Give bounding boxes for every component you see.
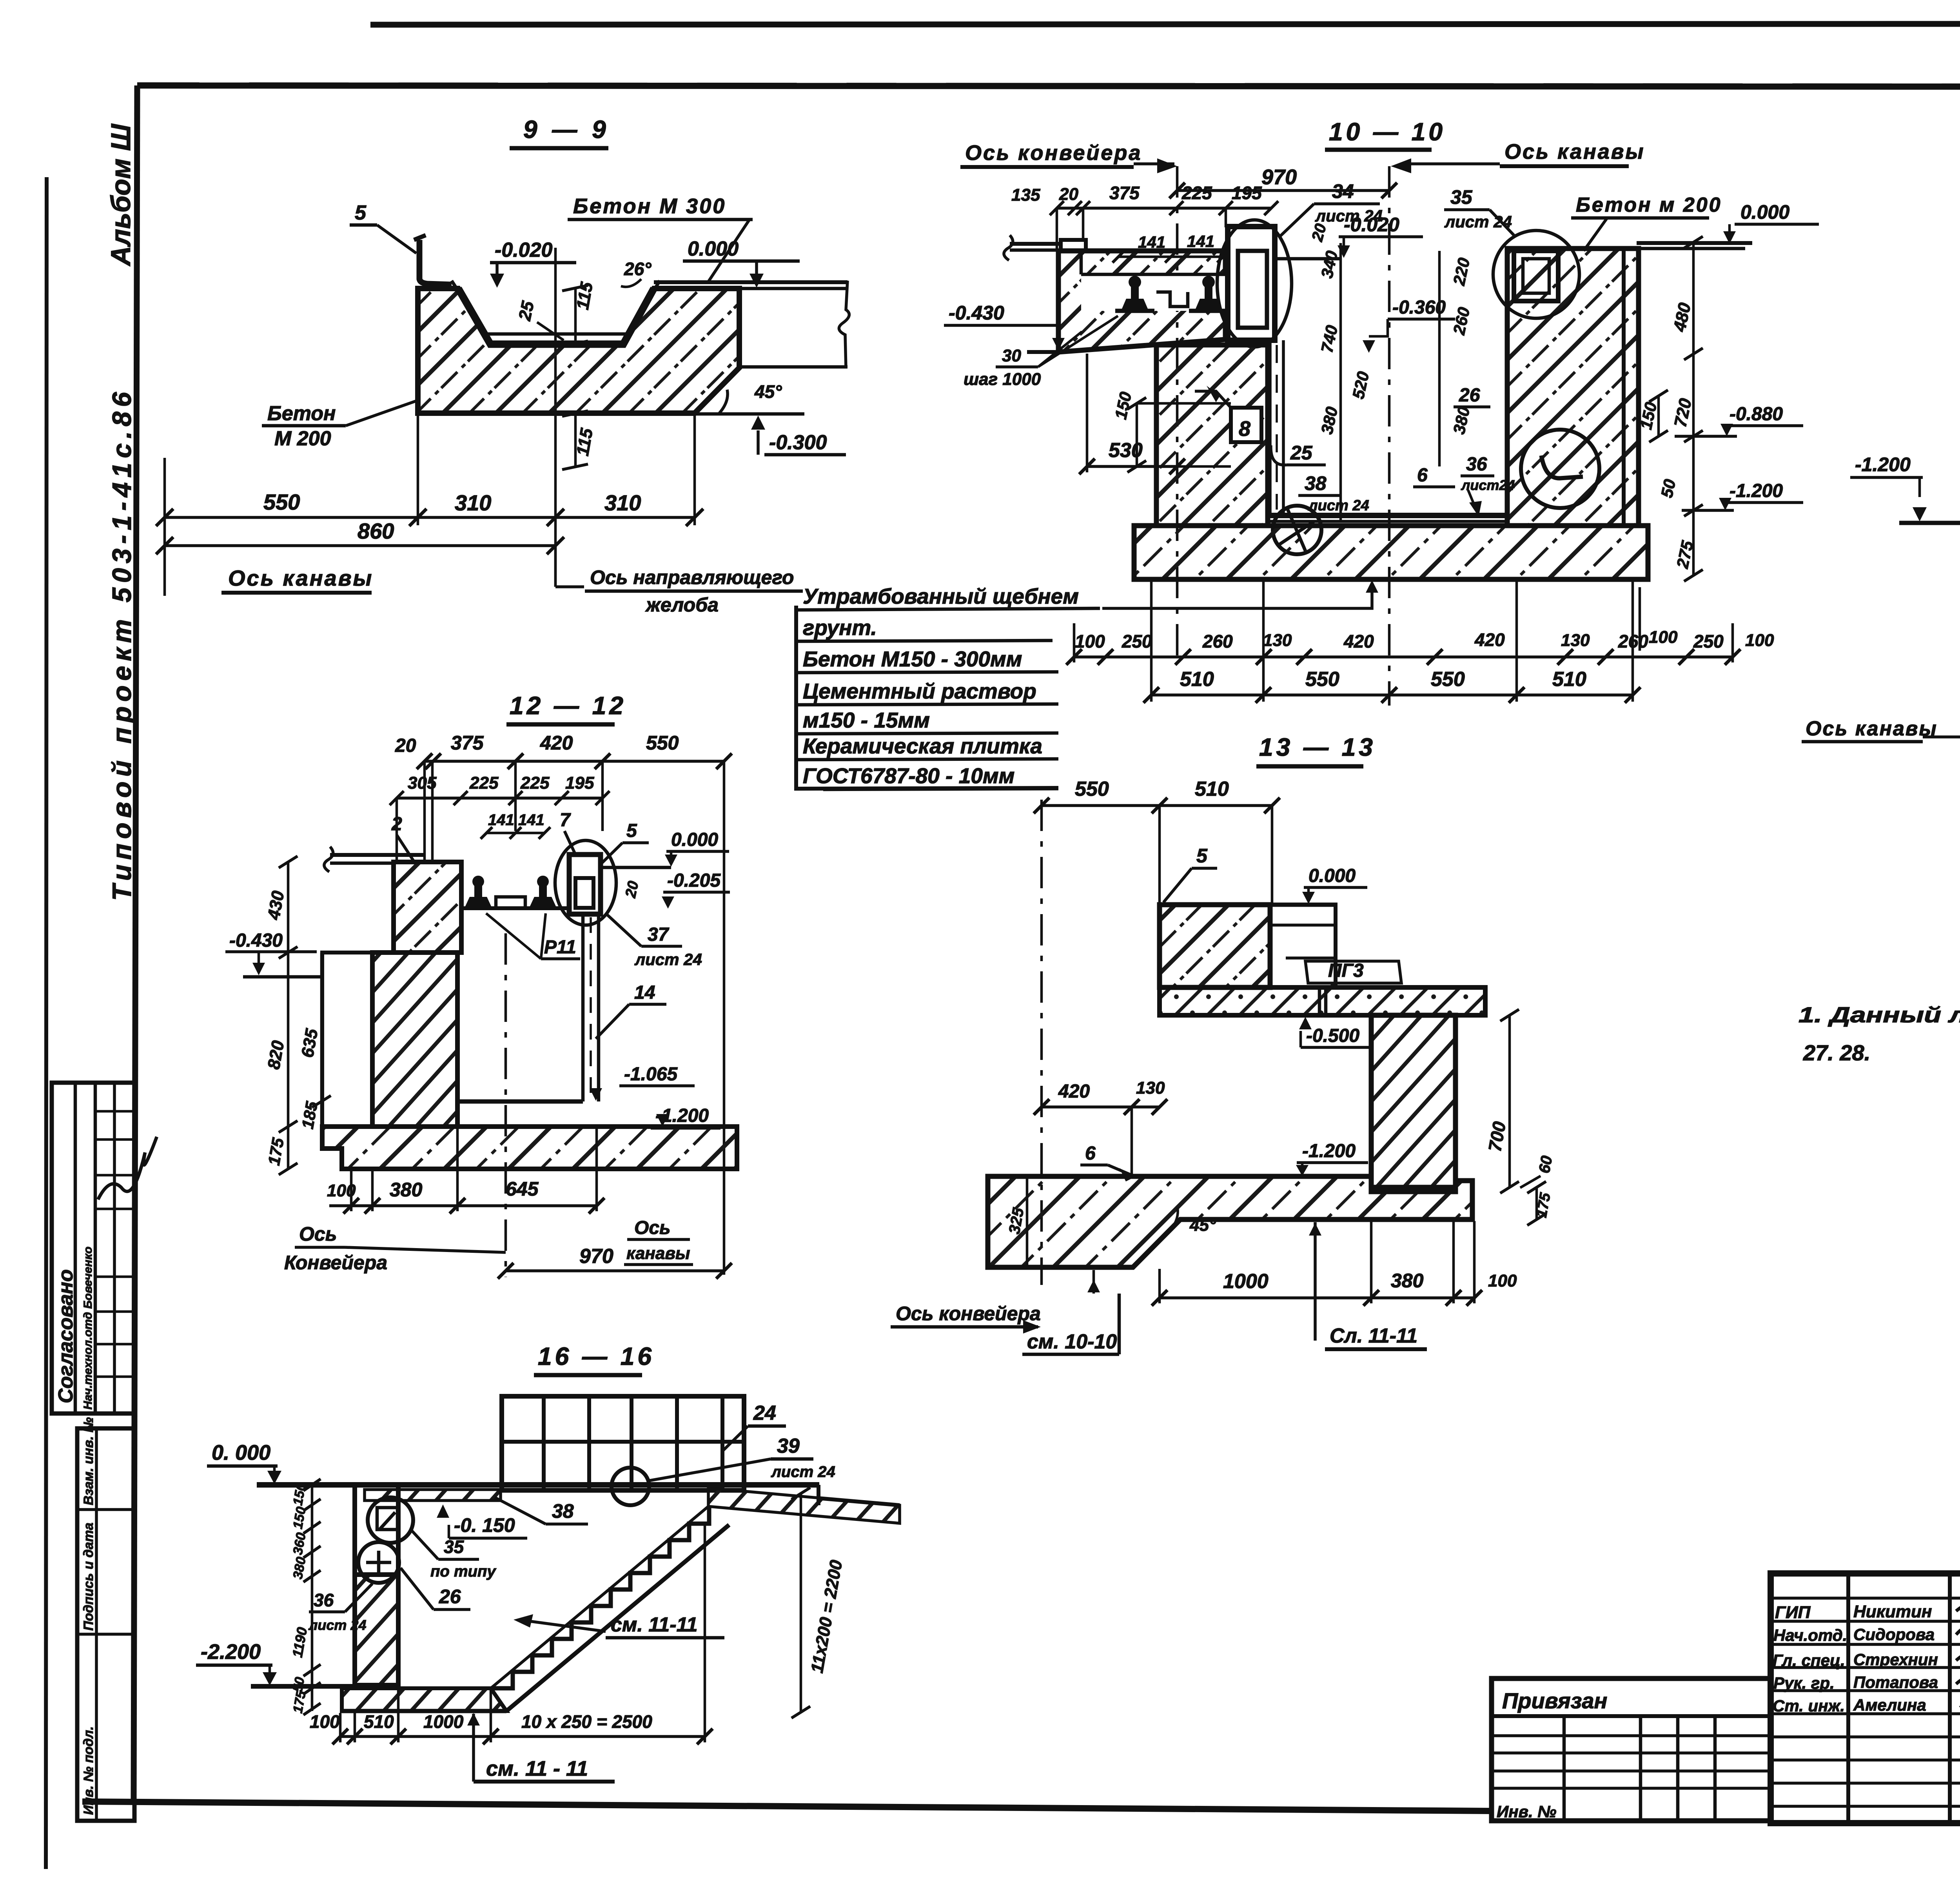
- dim 141 141: [1118, 256, 1223, 258]
- svg-text:13 — 13: 13 — 13: [1259, 733, 1376, 761]
- left outline box: [322, 953, 372, 1127]
- svg-text:Ось: Ось: [299, 1223, 337, 1245]
- svg-text:1000: 1000: [1223, 1270, 1269, 1293]
- svg-text:0.000: 0.000: [1308, 866, 1356, 886]
- svg-text:Потапова: Потапова: [1853, 1673, 1938, 1691]
- svg-text:-0.880: -0.880: [1730, 404, 1783, 425]
- svg-text:550: 550: [263, 490, 300, 514]
- svg-text:550: 550: [646, 732, 679, 754]
- svg-text:лист 24: лист 24: [1308, 497, 1369, 514]
- svg-text:645: 645: [506, 1178, 539, 1200]
- svg-text:Ось канавы: Ось канавы: [228, 566, 373, 590]
- svg-text:-0. 150: -0. 150: [454, 1514, 515, 1536]
- floor line -1.200: [1899, 521, 1960, 525]
- svg-text:1000: 1000: [423, 1711, 464, 1732]
- svg-text:ГИП: ГИП: [1775, 1603, 1811, 1622]
- right vertical dim 700: [1508, 1015, 1511, 1187]
- svg-text:10 x 250 = 2500: 10 x 250 = 2500: [521, 1711, 652, 1732]
- left vertical dim 430: [287, 862, 290, 953]
- svg-text:-0.020: -0.020: [495, 239, 553, 261]
- svg-text:20: 20: [1308, 222, 1330, 243]
- svg-text:27. 28.: 27. 28.: [1803, 1040, 1870, 1065]
- drawing frame border bottom: [82, 1802, 1492, 1811]
- svg-text:36: 36: [314, 1590, 334, 1610]
- bottom dim row 2: [1151, 693, 1633, 697]
- svg-text:Бетон м 200: Бетон м 200: [1576, 194, 1722, 216]
- floor lines extending right: [654, 280, 848, 284]
- right channel detail circle: [1493, 230, 1579, 318]
- svg-text:14: 14: [634, 982, 655, 1003]
- svg-text:ПГ3: ПГ3: [1328, 960, 1364, 981]
- svg-text:-1.200: -1.200: [1302, 1141, 1356, 1161]
- svg-text:5: 5: [355, 201, 367, 224]
- svg-text:225: 225: [469, 773, 499, 793]
- slab joint: [1318, 987, 1321, 1015]
- upper-left hatched block: [1058, 251, 1225, 352]
- svg-text:720: 720: [1671, 397, 1695, 429]
- svg-text:-0.500: -0.500: [1306, 1025, 1359, 1046]
- svg-text:по типу: по типу: [430, 1563, 496, 1580]
- svg-text:Ось: Ось: [634, 1218, 671, 1238]
- svg-text:-0.430: -0.430: [229, 930, 283, 951]
- pit floor lines: [1268, 513, 1507, 518]
- approval table verticals: [74, 1083, 77, 1414]
- svg-text:Ось канавы: Ось канавы: [1504, 140, 1645, 163]
- thin wall below channel: [581, 914, 585, 1101]
- svg-text:Р11: Р11: [544, 937, 576, 958]
- svg-text:135: 135: [1011, 185, 1040, 205]
- svg-text:250: 250: [1693, 631, 1724, 651]
- svg-text:37: 37: [648, 924, 670, 945]
- svg-text:220: 220: [1450, 256, 1474, 287]
- svg-text:лист 24: лист 24: [771, 1463, 835, 1481]
- svg-text:см. 10-10: см. 10-10: [1027, 1330, 1117, 1353]
- svg-text:-1.065: -1.065: [624, 1064, 678, 1085]
- concrete body hatched polygon: [418, 289, 739, 413]
- svg-text:5: 5: [626, 820, 637, 841]
- landing top line: [817, 1485, 820, 1505]
- big right vertical dim: [1692, 242, 1695, 575]
- signature columns verticals: [1846, 1573, 1850, 1823]
- svg-text:480: 480: [1670, 301, 1695, 334]
- svg-text:Рук. гр.: Рук. гр.: [1773, 1674, 1835, 1692]
- central vertical dim line: [1339, 243, 1342, 522]
- svg-text:-0.430: -0.430: [949, 302, 1004, 324]
- svg-text:Привязан: Привязан: [1502, 1688, 1607, 1713]
- strip columns: [1563, 1716, 1566, 1821]
- svg-text:лист 24: лист 24: [308, 1617, 366, 1633]
- svg-text:45°: 45°: [754, 381, 782, 402]
- svg-text:Ось канавы: Ось канавы: [1806, 717, 1938, 740]
- svg-text:25: 25: [1290, 442, 1313, 464]
- svg-text:Сл. 11-11: Сл. 11-11: [1330, 1325, 1417, 1347]
- right hatched column dense: [1371, 1015, 1455, 1187]
- svg-text:185: 185: [298, 1100, 321, 1130]
- top dim row 135/20/375/225/195: [1057, 207, 1271, 210]
- svg-text:Ось направляющего: Ось направляющего: [590, 566, 794, 588]
- left floor broken edge lines: [1010, 242, 1061, 246]
- svg-text:510: 510: [364, 1711, 394, 1732]
- svg-text:26°: 26°: [624, 259, 652, 279]
- svg-text:39: 39: [777, 1435, 800, 1457]
- svg-text:130: 130: [1263, 631, 1292, 650]
- svg-text:510: 510: [1180, 668, 1214, 691]
- bottom dim row: [340, 1735, 705, 1738]
- svg-text:Сидорова: Сидорова: [1853, 1625, 1935, 1644]
- dim 141,141: [486, 832, 544, 835]
- Привязан strip box: [1492, 1678, 1771, 1821]
- svg-text:510: 510: [1552, 668, 1586, 691]
- svg-text:420: 420: [1058, 1081, 1090, 1102]
- svg-text:Ось конвейера: Ось конвейера: [965, 141, 1142, 165]
- axis направляющего желоба line: [554, 248, 557, 587]
- right break squiggle: [839, 281, 849, 368]
- rail seat notch: [1081, 274, 1225, 311]
- svg-text:30: 30: [1002, 346, 1021, 365]
- svg-text:100: 100: [1075, 631, 1105, 651]
- svg-text:Стрехнин: Стрехнин: [1853, 1650, 1938, 1669]
- svg-text:310: 310: [455, 490, 491, 515]
- channel C with detail ellipse: [569, 855, 601, 914]
- title block outer box: [1771, 1573, 1960, 1823]
- left pit wall hatched: [1156, 345, 1268, 526]
- svg-text:50: 50: [1657, 477, 1679, 499]
- left ext line with ticks: [311, 1485, 314, 1711]
- svg-text:6: 6: [1085, 1143, 1096, 1164]
- svg-text:100: 100: [1745, 631, 1774, 650]
- bottom dim row 100/380/645: [329, 1204, 597, 1207]
- svg-text:Цементный раствор: Цементный раствор: [803, 679, 1036, 703]
- svg-text:6: 6: [1417, 465, 1428, 486]
- ext verticals top dims: [396, 798, 398, 862]
- svg-text:35: 35: [444, 1537, 465, 1557]
- svg-text:-2.200: -2.200: [201, 1640, 261, 1664]
- rail 2: [530, 876, 556, 907]
- lower-left hatched column: [372, 953, 457, 1127]
- svg-text:шаг 1000: шаг 1000: [964, 370, 1041, 389]
- bottom dim row 1000/380/100: [1160, 1296, 1474, 1299]
- top floor line: [257, 1482, 819, 1488]
- svg-text:550: 550: [1075, 778, 1109, 800]
- svg-text:см. 11 - 11: см. 11 - 11: [486, 1757, 588, 1780]
- left thin floor band hatched: [365, 1490, 501, 1501]
- wall lower hatched part: [355, 1575, 398, 1685]
- svg-text:635: 635: [298, 1027, 322, 1059]
- svg-text:Амелина: Амелина: [1853, 1696, 1926, 1714]
- scanned page left edge artifact: [46, 177, 47, 1869]
- svg-text:лист 24: лист 24: [634, 950, 702, 969]
- left block step notch: [1061, 240, 1086, 251]
- svg-text:195: 195: [1232, 183, 1262, 203]
- inner vertical dim 635/185: [320, 953, 323, 1127]
- boxed label 8: [1231, 408, 1261, 442]
- svg-text:Инв. № подл.: Инв. № подл.: [81, 1726, 96, 1815]
- label Ось направляющего желоба: [554, 546, 557, 587]
- svg-text:195: 195: [565, 773, 594, 793]
- svg-text:Взам. инв. №: Взам. инв. №: [81, 1417, 96, 1505]
- left wall column outline: [355, 1485, 398, 1685]
- svg-text:1190: 1190: [289, 1626, 310, 1658]
- svg-text:375: 375: [1109, 183, 1140, 203]
- svg-text:141: 141: [518, 811, 544, 829]
- label см. 11-11 bottom with leader: [472, 1714, 475, 1782]
- svg-text:970: 970: [1261, 165, 1297, 189]
- svg-text:0. 000: 0. 000: [212, 1441, 270, 1464]
- svg-text:М 200: М 200: [274, 427, 331, 450]
- svg-text:24: 24: [753, 1402, 776, 1424]
- svg-text:Согласовано: Согласовано: [54, 1269, 77, 1403]
- left vertical dim 820: [287, 953, 290, 1127]
- ext verticals bottom: [350, 1170, 353, 1211]
- svg-text:16 — 16: 16 — 16: [538, 1342, 655, 1370]
- svg-text:-0.205: -0.205: [667, 870, 721, 891]
- right landing band hatched: [708, 1488, 900, 1523]
- foundation slab hatched: [1134, 526, 1648, 579]
- left upstand flashing: [419, 240, 452, 285]
- notch between rails: [496, 897, 525, 908]
- svg-text:420: 420: [1474, 630, 1505, 650]
- svg-text:Конвейера: Конвейера: [284, 1252, 387, 1274]
- svg-text:м150 - 15мм: м150 - 15мм: [803, 708, 930, 732]
- svg-text:2: 2: [391, 814, 402, 835]
- second dim row 305/225/225/195: [397, 797, 603, 800]
- svg-text:8: 8: [1239, 417, 1250, 441]
- svg-text:Гл. спец.: Гл. спец.: [1773, 1651, 1845, 1669]
- svg-text:20: 20: [622, 880, 642, 900]
- svg-text:-1.200: -1.200: [1855, 454, 1911, 475]
- svg-text:550: 550: [1305, 668, 1339, 691]
- svg-text:45°: 45°: [1189, 1216, 1216, 1235]
- svg-text:35: 35: [1450, 186, 1473, 208]
- svg-text:1. Данный лист см. совмес: 1. Данный лист см. совместно с листами 1…: [1798, 1002, 1960, 1027]
- svg-text:0.000: 0.000: [671, 829, 718, 850]
- svg-text:12 — 12: 12 — 12: [510, 691, 626, 720]
- svg-text:380: 380: [390, 1179, 423, 1201]
- svg-text:520: 520: [1349, 370, 1373, 401]
- svg-text:Инв. №: Инв. №: [1497, 1802, 1556, 1821]
- drawing frame border top: [137, 85, 1960, 87]
- svg-text:Утрамбованный щебнем: Утрамбованный щебнем: [803, 584, 1079, 608]
- svg-text:36: 36: [1466, 454, 1487, 475]
- upper hatched block: [1160, 905, 1270, 987]
- stair slab underside: [506, 1525, 729, 1711]
- svg-text:310: 310: [604, 490, 641, 515]
- svg-text:141: 141: [1187, 232, 1214, 250]
- detail circle 1: [368, 1497, 413, 1543]
- lower margin table rows: [77, 1508, 134, 1511]
- svg-text:510: 510: [1195, 778, 1229, 800]
- svg-text:Никитин: Никитин: [1853, 1602, 1932, 1621]
- right inner vertical dim: [1438, 251, 1441, 466]
- svg-text:340: 340: [1318, 249, 1341, 280]
- drawing frame border left: [134, 85, 137, 1802]
- floor line -0.430 extension: [1027, 350, 1061, 354]
- step lines right of block: [1334, 905, 1338, 987]
- lower floor line: [251, 1684, 355, 1689]
- lower margin table divider: [95, 1428, 98, 1821]
- stair steps: [491, 1507, 709, 1688]
- trough inner lining: [452, 281, 660, 334]
- top line extension right: [1270, 903, 1338, 907]
- svg-text:желоба: желоба: [645, 594, 719, 616]
- lower margin table (Инв) outer box: [77, 1428, 134, 1821]
- svg-text:130: 130: [1136, 1078, 1165, 1098]
- svg-text:-0.300: -0.300: [769, 431, 827, 454]
- trough lining thick line: [458, 289, 654, 344]
- svg-text:250: 250: [1122, 631, 1152, 651]
- svg-text:150: 150: [290, 1506, 309, 1530]
- extension lines for bottom dims: [417, 414, 419, 525]
- svg-text:375: 375: [451, 732, 484, 754]
- left notes block box: [796, 606, 1058, 789]
- svg-text:38: 38: [552, 1500, 574, 1522]
- svg-text:130: 130: [1561, 631, 1590, 650]
- svg-text:ГОСТ6787-80 - 10мм: ГОСТ6787-80 - 10мм: [803, 764, 1014, 788]
- metal liner strip below channel: [1269, 340, 1272, 515]
- svg-text:7: 7: [560, 810, 571, 831]
- svg-text:700: 700: [1485, 1120, 1510, 1153]
- label См. 11-11 with leader: [1314, 1222, 1317, 1341]
- approval table (Согласовано) outer box: [52, 1083, 134, 1414]
- svg-text:34: 34: [1332, 180, 1354, 202]
- upper-left hatched block: [394, 862, 461, 953]
- rail 2: [1195, 276, 1222, 310]
- svg-text:Нач.отд.: Нач.отд.: [1773, 1626, 1847, 1644]
- svg-text:9 — 9: 9 — 9: [523, 115, 610, 143]
- svg-text:Типовой проект 503-1-41с.86: Типовой проект 503-1-41с.86: [107, 387, 137, 901]
- detail circle 2: [358, 1542, 399, 1583]
- svg-text:канавы: канавы: [626, 1244, 690, 1263]
- svg-text:420: 420: [1343, 631, 1374, 651]
- signature rows: [1771, 1597, 1960, 1600]
- svg-text:5: 5: [1196, 845, 1208, 867]
- svg-text:550: 550: [1431, 668, 1465, 691]
- ПТ3 slab hatched: [1160, 987, 1485, 1015]
- notch between rails: [1156, 292, 1188, 307]
- axis канавы extension line: [163, 458, 166, 596]
- svg-text:Бетон: Бетон: [267, 402, 336, 425]
- ext verticals from top dims: [1056, 208, 1058, 251]
- top dim row 20/375/420/550: [425, 760, 724, 763]
- level line -0.430: [243, 975, 322, 979]
- svg-text:225: 225: [1181, 183, 1212, 203]
- svg-text:380: 380: [1318, 405, 1341, 436]
- svg-text:грунт.: грунт.: [803, 615, 877, 640]
- svg-text:100: 100: [310, 1711, 340, 1732]
- right surface double lines: [1637, 241, 1752, 245]
- svg-text:175: 175: [265, 1136, 288, 1167]
- ext verticals bottom dims: [339, 1713, 342, 1742]
- dim row 860: [165, 544, 555, 547]
- svg-text:-0.020: -0.020: [1344, 214, 1399, 236]
- svg-text:Бетон М150 - 300мм: Бетон М150 - 300мм: [803, 647, 1022, 671]
- svg-text:Подпись и дата: Подпись и дата: [81, 1522, 96, 1631]
- svg-text:100: 100: [1488, 1271, 1517, 1290]
- conveyor axis line: [1176, 166, 1179, 662]
- ground line right of bevel: [695, 412, 804, 416]
- svg-text:25: 25: [515, 299, 538, 323]
- svg-text:225: 225: [520, 773, 550, 793]
- pit floor line: [457, 1100, 583, 1104]
- top left floor lines: [330, 853, 425, 857]
- svg-text:-0.360: -0.360: [1392, 297, 1446, 318]
- svg-text:380: 380: [290, 1556, 309, 1580]
- svg-text:430: 430: [264, 889, 288, 921]
- svg-text:Альбом Ш: Альбом Ш: [105, 123, 136, 267]
- strip rows: [1492, 1734, 1771, 1737]
- pit axis line: [1388, 166, 1391, 706]
- svg-text:860: 860: [358, 519, 394, 543]
- svg-text:0.000: 0.000: [1740, 201, 1789, 223]
- svg-text:60: 60: [1536, 1154, 1556, 1174]
- svg-text:26: 26: [439, 1586, 461, 1608]
- svg-text:20: 20: [395, 735, 416, 756]
- svg-text:141: 141: [1138, 233, 1165, 251]
- ext verticals bottom dims: [1073, 623, 1076, 662]
- svg-text:10 — 10: 10 — 10: [1329, 118, 1446, 146]
- svg-text:Ст. инж.: Ст. инж.: [1773, 1697, 1845, 1715]
- scanned page top edge artifact: [370, 24, 1960, 25]
- svg-text:260: 260: [1202, 631, 1233, 651]
- right vertical dim 11x200=2200: [800, 1493, 802, 1712]
- svg-text:Керамическая плитка: Керамическая плитка: [803, 734, 1042, 758]
- top dim 550/510: [1042, 804, 1272, 807]
- right ext vertical: [723, 761, 726, 1275]
- foundation slab hatched: [322, 1127, 737, 1169]
- approval table rows: [95, 1110, 134, 1113]
- svg-text:380: 380: [1450, 405, 1474, 436]
- left vertical dim 175: [287, 1127, 290, 1169]
- right pit wall hatched: [1507, 249, 1639, 526]
- svg-text:Нач.технол.отд Бовеченко: Нач.технол.отд Бовеченко: [82, 1247, 94, 1410]
- left axis dash-dot: [1040, 800, 1043, 1285]
- conveyor axis line: [505, 933, 507, 1277]
- rail 1: [1122, 276, 1148, 310]
- svg-text:380: 380: [1391, 1270, 1424, 1292]
- svg-text:Бетон М 300: Бетон М 300: [573, 194, 726, 218]
- svg-text:420: 420: [540, 732, 573, 754]
- pit floor slab hatched: [342, 1688, 506, 1711]
- rail seat line: [461, 906, 569, 910]
- svg-text:-1.200: -1.200: [1730, 481, 1783, 501]
- bottom dim row 1: [1074, 655, 1733, 659]
- svg-text:см. 11-11: см. 11-11: [611, 1613, 698, 1636]
- tile grid block: [502, 1396, 744, 1490]
- leader from note block to slab: [1102, 585, 1372, 608]
- svg-text:141: 141: [488, 811, 514, 829]
- svg-text:38: 38: [1305, 472, 1327, 494]
- svg-text:740: 740: [1318, 324, 1341, 354]
- svg-text:260: 260: [1450, 306, 1474, 337]
- foundation slab hatched: [988, 1176, 1472, 1267]
- C-channel column left: [1228, 227, 1275, 340]
- svg-text:Ось конвейера: Ось конвейера: [896, 1303, 1041, 1325]
- dim row 550/310/310: [165, 516, 695, 519]
- signature squiggle: [98, 1137, 157, 1199]
- surface 0.000 line right of channel: [601, 866, 671, 869]
- svg-text:970: 970: [579, 1245, 613, 1268]
- surface right of channel: [1275, 257, 1341, 261]
- svg-text:820: 820: [264, 1039, 288, 1071]
- svg-text:26: 26: [1459, 385, 1480, 406]
- svg-text:100: 100: [1649, 628, 1678, 647]
- svg-text:11x200 = 2200: 11x200 = 2200: [808, 1559, 846, 1675]
- rail 1: [465, 876, 492, 907]
- svg-text:360: 360: [290, 1531, 309, 1556]
- detail ellipse left channel: [1217, 220, 1292, 347]
- svg-text:20: 20: [1059, 185, 1078, 204]
- signatures squiggles: [1956, 1604, 1960, 1613]
